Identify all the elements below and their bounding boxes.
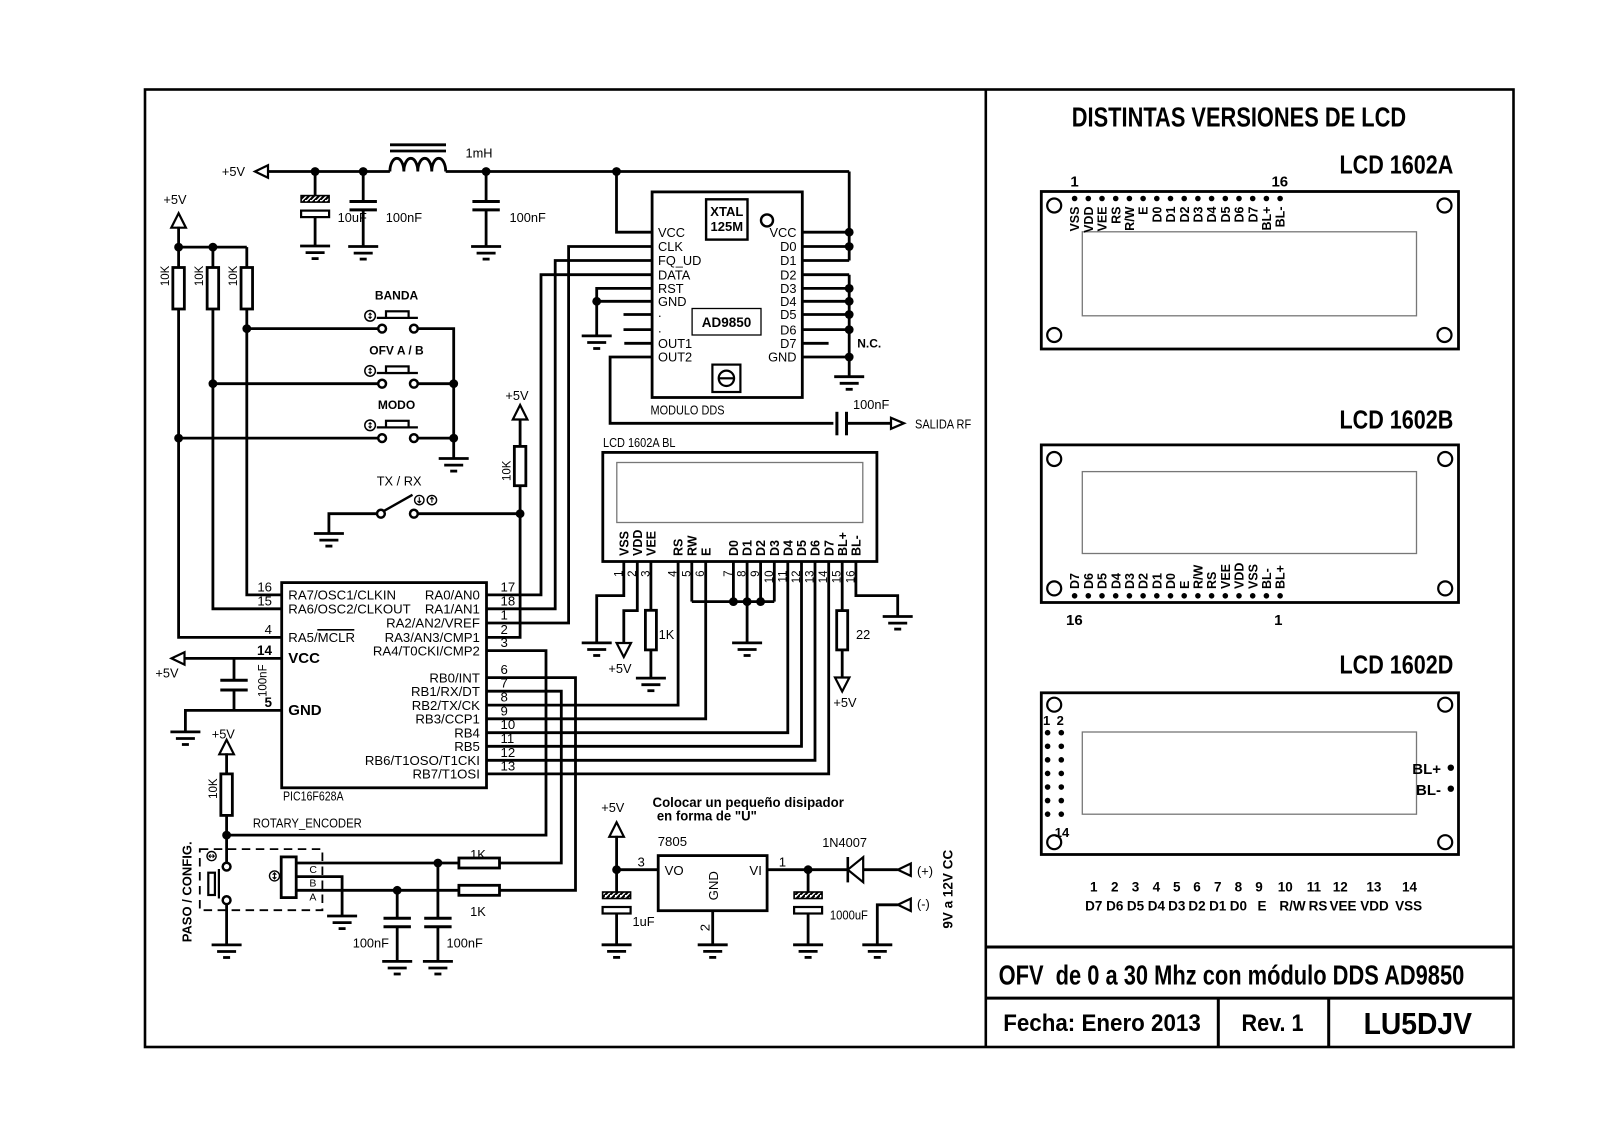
wire cap to RF arrow [847,422,891,425]
svg-text:D1: D1 [1150,573,1164,589]
svg-text:14: 14 [1055,825,1070,840]
LCD B pin dot 10 [1154,593,1160,599]
overline MCLR [317,629,354,631]
svg-text:R/W: R/W [1123,206,1137,231]
LCD A display window [1082,232,1416,316]
wire paso button to gnd [225,904,228,945]
svg-text:+5V: +5V [222,164,246,179]
svg-text:16: 16 [1066,612,1083,629]
wire C 10uF to gnd [314,217,317,246]
svg-text:(+): (+) [917,863,933,878]
LCD B pin dot 6 [1209,593,1215,599]
node bus D5 [845,310,854,319]
svg-text:SALIDA RF: SALIDA RF [915,416,971,431]
wire BL pin2 VDD to +5V [624,562,638,643]
wire 7805 VI to diode [767,868,848,871]
svg-text:LCD 1602A: LCD 1602A [1340,150,1454,180]
wire +5V arrow to node [177,227,180,247]
ground PASO button [212,945,242,958]
svg-text:RB1/RX/DT: RB1/RX/DT [411,684,480,699]
svg-text:RA1/AN1: RA1/AN1 [425,602,480,617]
svg-text:RB3/CCP1: RB3/CCP1 [415,712,480,727]
LCD D mounting hole tl [1047,698,1061,712]
LCD D BL- dot [1448,786,1454,792]
resistor R9 10K [221,774,233,816]
svg-text:VI: VI [749,863,761,878]
capacitor C5 100nF [384,918,411,926]
wire R9 to rail node [225,815,228,835]
power arrow +5V BL VDD [617,643,631,657]
LCD D mounting hole tr [1438,698,1452,712]
wire rail to C 10uF [314,172,317,196]
wire DDS D7 nc stub [802,342,828,345]
svg-text:en forma de "U": en forma de "U" [657,809,757,824]
wire BL pin12 D5 to PIC RB5 [487,562,801,747]
svg-text:MODO: MODO [378,398,415,412]
power arrow +5V VCC [172,652,185,664]
svg-text:VO: VO [665,863,684,878]
svg-text:BL-: BL- [850,535,864,556]
node rail 100nF a [359,167,368,176]
node rail 100nF b [482,167,491,176]
ground 100nF a [348,247,378,260]
wire OFV right to bus [418,382,454,385]
svg-text:2: 2 [698,924,713,931]
svg-text:1K: 1K [470,847,486,862]
ground 100nF b [471,247,501,260]
svg-text:D0: D0 [780,239,796,254]
LCD B pin dot 7 [1195,593,1201,599]
ground PIC [170,732,200,745]
wire button bus to gnd [452,384,455,459]
wire rail inductor to corner [446,170,850,173]
LCD D mounting hole bl [1047,835,1061,849]
LCD A pin dot 7 [1154,196,1160,202]
power arrow +5V encoder [219,740,234,755]
svg-text:+5V: +5V [833,695,857,710]
switch symbol up [427,495,436,504]
LCD B display window [1082,472,1416,554]
wire DDS DATA to PIC RA0 [487,275,652,595]
svg-text:1K: 1K [659,627,675,642]
wire BL pin8 D1 [746,562,749,602]
svg-text:E: E [1137,207,1151,215]
svg-text:3: 3 [501,635,508,650]
wire R2 to OFV row and pin15 [213,309,282,609]
wire DDS RST stub [597,288,652,301]
svg-text:MODULO DDS: MODULO DDS [651,403,725,418]
wire DDS D5 stub [802,313,849,316]
node pullup 2 [209,243,218,252]
switch contact right [410,510,418,518]
resistor R7 1K [459,858,500,868]
svg-text:1: 1 [501,608,508,623]
node VI [804,865,813,874]
crystal XTAL 125M box [706,199,747,239]
wire DDS D4 stub [802,300,849,303]
wire PIC GND to gnd [185,710,281,732]
svg-text:VDD: VDD [1233,563,1247,589]
svg-text:D0: D0 [1164,573,1178,589]
svg-text:+5V: +5V [601,800,625,815]
svg-text:D5: D5 [1096,573,1110,589]
LCD A pin dot 16 [1277,196,1283,202]
svg-text:N.C.: N.C. [857,336,881,350]
wire DDS GND pin [597,301,652,336]
LCD BL display window [617,463,863,523]
svg-text:VDD: VDD [631,530,645,556]
svg-text:D6: D6 [1082,573,1096,589]
svg-text:100nF: 100nF [353,936,389,951]
wire C8 to gnd [807,914,810,945]
svg-text:RB7/T1OSI: RB7/T1OSI [412,767,479,782]
wire BL pin7 D0 [732,562,735,602]
LCD BL module box [603,452,877,561]
wire rail to paso button [225,835,228,863]
node R3 BANDA [242,324,251,333]
svg-text:14: 14 [257,643,273,658]
svg-text:100nF: 100nF [510,210,546,225]
LCD A pin dot 13 [1236,196,1242,202]
border frame [145,90,1514,1048]
svg-text:+5V: +5V [155,666,179,681]
ground minus input [862,945,892,958]
resistor R8 1K [459,885,500,895]
svg-text:(-): (-) [917,897,930,912]
svg-text:D2: D2 [1178,206,1192,222]
LCD 1602A module box [1041,192,1458,350]
svg-text:1K: 1K [470,904,486,919]
wire rail to C 100nF b [485,172,488,202]
svg-text:RA4/T0CKI/CMP2: RA4/T0CKI/CMP2 [373,643,480,658]
LCD B pin dot 15 [1086,593,1092,599]
svg-text:RA6/OSC2/CLKOUT: RA6/OSC2/CLKOUT [288,602,410,617]
wire OFV left [213,382,378,385]
LCD B pin dot 16 [1072,593,1078,599]
wire C4 to GND row [233,690,236,710]
wire +5V to vo node [615,836,618,870]
svg-text:2: 2 [1057,713,1064,728]
wire right bus upper [848,172,851,261]
pushbutton OFV A/B [365,366,418,388]
svg-text:LCD 1602A BL: LCD 1602A BL [603,435,676,450]
wire encoder A row [296,889,459,892]
ground BL- [883,617,913,630]
ground C7 [602,945,632,958]
ground BL VSS [582,643,612,656]
svg-text:VEE: VEE [1096,207,1110,232]
LCD A pin dot 10 [1195,196,1201,202]
LCD B mounting hole bl [1047,581,1061,595]
ground 10uF [300,246,330,259]
node encoder rail [222,831,231,840]
ground encoder B [327,916,357,929]
svg-text:VCC: VCC [658,225,685,240]
pushbutton BANDA [365,311,418,333]
LCD B pin dot 8 [1181,593,1187,599]
wire +5V to R9 [225,753,228,774]
svg-text:D5: D5 [780,307,796,322]
wire BL gnd bus drop [746,602,749,643]
capacitor C4 100nF [220,680,247,690]
wire BANDA right to bus [418,329,454,384]
input arrow minus [898,899,911,911]
svg-text:TX / RX: TX / RX [377,474,422,489]
svg-text:1mH: 1mH [466,146,493,161]
LCD D pin dot matrix [1045,730,1064,817]
svg-text:+5V: +5V [608,661,632,676]
wire PIC RB0 to encoder A [487,678,575,891]
wire node to R1 [177,247,180,267]
LCD B pin dot 14 [1099,593,1105,599]
wire diode to plus arrow [863,868,898,871]
diode D1 1N4007 [848,857,863,882]
svg-text:15: 15 [257,593,272,608]
wire C6 to gnd [436,927,439,962]
resistor R4 10K [514,446,526,485]
wire MODO right to bus [418,437,454,440]
svg-text:VEE: VEE [1219,564,1233,589]
LCD A pin dot 4 [1113,196,1119,202]
svg-text:RA0/AN0: RA0/AN0 [425,588,480,603]
wire corner to R3 [245,247,248,267]
svg-text:10K: 10K [160,265,172,286]
svg-text:B: B [309,877,316,889]
wire +5V mid to R4 [519,419,522,447]
LCD D display window [1082,732,1416,814]
rotary encoder connector [281,857,296,898]
LCD 1602D module box [1041,693,1458,855]
wire BL pin4 RS to PIC RB2 [487,562,678,706]
wire PIC RA4 to encoder rail [227,651,546,836]
panel divider line [984,90,987,1048]
wire C 100nF b to gnd [485,210,488,247]
svg-text:D4: D4 [781,540,795,556]
wire minus arrow to gnd [877,905,898,945]
LCD D BL+ dot [1448,765,1454,771]
resistor R6 22 [837,611,848,650]
LCD A pin dot 12 [1223,196,1229,202]
wire pullup rail [179,246,247,249]
LCD B pin dot 9 [1168,593,1174,599]
svg-text:E: E [1178,581,1192,589]
trimmer potentiometer symbol [712,365,740,392]
LCD B pin dot 5 [1223,593,1229,599]
node C cap [434,859,443,868]
part label box AD9850 [692,309,761,336]
power arrow +5V rail [255,165,268,177]
svg-text:A: A [309,891,316,903]
node rail 10uF [311,167,320,176]
wire BL pin13 D6 to PIC RB6 [487,562,815,761]
svg-text:1uF: 1uF [633,914,655,929]
capacitor C 100nF b [472,202,499,210]
switch lever TX/RX [384,495,413,511]
dashed box PASO/CONFIG [200,849,323,910]
node VO [612,865,621,874]
LCD B pin dot 2 [1264,593,1270,599]
svg-text:D0: D0 [1150,206,1164,222]
svg-text:PASO / CONFIG.: PASO / CONFIG. [180,841,195,942]
svg-text:ROTARY_ENCODER: ROTARY_ENCODER [253,816,362,831]
svg-text:VSS: VSS [1068,207,1082,232]
switch contact left [377,510,385,518]
svg-text:GND: GND [288,702,322,719]
wire vi node to C8 [807,870,810,892]
ground BL data [732,643,762,656]
wire BL pin10 D3 [773,562,776,602]
node R2 OFV [209,379,218,388]
svg-text:OFV de 0 a 30 Mhz con módulo: OFV de 0 a 30 Mhz con módulo DDS AD9850 [999,960,1465,991]
LCD A mounting hole tr [1438,199,1452,213]
title block top line [986,946,1514,949]
wire DDS D0 stub [802,245,849,248]
LCD D mounting hole br [1438,835,1452,849]
wire DDS OUT1 stub [624,342,652,345]
svg-text:1000uF: 1000uF [830,908,868,923]
wire DDS D2 stub [802,273,849,276]
svg-text:+5V: +5V [505,388,529,403]
wire switch left to gnd [329,514,377,534]
wire BL pin14 D7 to PIC RB7 [487,562,829,774]
svg-text:11: 11 [501,731,515,746]
svg-text:3: 3 [638,854,645,869]
wire C5 to gnd [396,927,399,962]
svg-text:1: 1 [779,854,786,869]
svg-text:R/W: R/W [1192,565,1206,590]
wire DDS D1 stub [802,259,849,262]
node bus GND [845,353,854,362]
LCD A mounting hole br [1438,328,1452,342]
LCD B pin dot 11 [1140,593,1146,599]
encoder symbol circle [270,871,280,881]
svg-text:RA5/MCLR: RA5/MCLR [288,630,355,645]
wire DDS FQ_UD to PIC RA1 [487,261,652,609]
svg-text:9: 9 [501,703,508,718]
wire +5V rail [267,170,390,173]
svg-text:100nF: 100nF [258,664,270,697]
power arrow +5V out [609,822,624,837]
svg-text:10K: 10K [228,265,240,286]
node bus VCC [845,228,854,237]
svg-text:BL+: BL+ [1412,761,1441,778]
svg-text:LCD 1602D: LCD 1602D [1340,650,1454,680]
svg-text:1N4007: 1N4007 [822,835,867,850]
svg-text:1: 1 [1070,173,1078,190]
wire 7805 pin2 to gnd [711,911,714,945]
wire node to R2 [211,247,214,267]
wire BL pin16 BL- to gnd [856,562,898,617]
svg-text:C: C [309,864,317,876]
svg-text:16: 16 [257,579,272,594]
wire DDS D3 stub [802,287,849,290]
node BL D0 gnd [729,597,738,606]
wire BL pin5 RW to gnd bus [690,562,693,602]
svg-text:VCC: VCC [769,225,796,240]
svg-text:D3: D3 [768,540,782,556]
svg-text:D0: D0 [727,540,741,556]
wire switch right to 10K node [418,512,520,515]
svg-text:GND: GND [658,294,686,309]
title block separator 2 [1327,998,1330,1047]
svg-text:100nF: 100nF [853,397,889,412]
svg-text:D7: D7 [1068,573,1082,589]
capacitor C 100nF a [350,202,377,210]
svg-text:BL+: BL+ [1274,565,1288,589]
ground DDS right [834,377,864,390]
svg-text:D6: D6 [1233,206,1247,222]
svg-text:E: E [699,548,713,556]
wire R1 to MODO row and pin4 [179,309,282,637]
LCD B pin dot 12 [1127,593,1133,599]
svg-text:BL+: BL+ [1260,207,1274,231]
LCD A pin dot 6 [1140,196,1146,202]
power arrow +5V pullups [171,213,186,228]
wire DDS VCC right stub [802,231,849,234]
svg-text:13: 13 [501,758,516,773]
node A cap [393,886,402,895]
svg-text:LU5DJV: LU5DJV [1364,1006,1473,1041]
svg-text:RS: RS [1109,207,1123,224]
wire BL pin3 VEE to R5 [650,562,653,611]
node bus D6 [845,325,854,334]
wire DDS GND right stub [802,356,849,359]
ground DDS left [582,336,612,349]
button contact top [223,863,231,871]
svg-text:10K: 10K [501,460,513,481]
input arrow plus [898,864,911,876]
svg-text:D4: D4 [1205,206,1219,222]
wire DDS nc pin stub a [624,313,653,316]
svg-text:22: 22 [856,627,870,642]
ground 7805 [698,945,728,958]
LCD A pin dot 11 [1209,196,1215,202]
node BL D1 gnd [743,597,752,606]
wire C7 to gnd [615,914,618,945]
ground button bus [439,459,469,472]
svg-text:D4: D4 [1109,573,1123,589]
LCD A pin dot 2 [1086,196,1092,202]
ground R5 [636,678,666,691]
svg-text:RA7/OSC1/CLKIN: RA7/OSC1/CLKIN [288,588,396,603]
svg-text:D1: D1 [1164,206,1178,222]
wire BL pin15 BL+ to R6 [841,562,844,611]
svg-text:GND: GND [706,871,721,900]
wire encoder B to gnd [296,877,342,916]
svg-text:CLK: CLK [658,239,683,254]
svg-text:18: 18 [501,593,516,608]
svg-text:VSS: VSS [617,531,631,556]
wire DDS OUT2 to output cap [610,357,833,423]
svg-text:GND: GND [768,350,796,365]
svg-text:D7: D7 [822,540,836,556]
svg-text:1: 1 [1043,713,1050,728]
wire vo node to 7805 [617,868,659,871]
resistor R3 10K [241,268,253,310]
LCD A pin dot 5 [1127,196,1133,202]
LCD B mounting hole tr [1438,452,1452,466]
svg-text:16: 16 [1271,173,1288,190]
LCD A pin dot 3 [1099,196,1105,202]
svg-text:+5V: +5V [163,192,187,207]
IC PIC16F628A box [282,583,487,788]
svg-text:D5: D5 [1219,206,1233,222]
LCD B mounting hole tl [1047,452,1061,466]
svg-text:LCD 1602B: LCD 1602B [1340,405,1454,435]
svg-text:DISTINTAS VERSIONES DE LCD: DISTINTAS VERSIONES DE LCD [1072,102,1406,133]
title block middle line [986,997,1514,1000]
svg-text:D1: D1 [741,540,755,556]
